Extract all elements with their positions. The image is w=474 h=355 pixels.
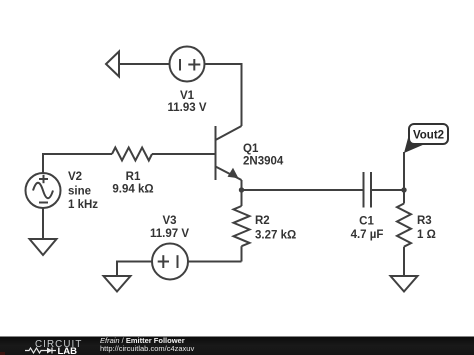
svg-text:V2: V2 [68,171,82,183]
label R2 value [255,215,296,242]
footer title text [100,336,194,353]
resistor R3 [397,190,411,276]
svg-text:LAB: LAB [58,346,78,355]
node emitter [239,187,244,192]
ground (rotated, top-left) [106,52,119,77]
wire [403,152,405,190]
svg-text:11.93 V: 11.93 V [167,102,206,114]
svg-text:V3: V3 [162,215,176,227]
voltage source V1 [170,47,205,82]
logo CircuitLab [25,339,82,355]
node output [401,187,406,192]
wire [43,154,112,173]
label V2 sine 1kHz [68,171,98,211]
svg-text:4.7 µF: 4.7 µF [351,229,384,241]
svg-text:Vout2: Vout2 [413,130,444,142]
label R1 value [112,171,153,196]
ground (R3) [391,276,418,292]
ground (V3) [104,276,131,292]
wire [42,208,44,239]
flag Vout2 [404,124,448,153]
svg-text:Q1: Q1 [243,143,259,155]
ground (V2) [30,239,57,255]
wire [371,189,404,191]
transistor Q1 [216,126,242,190]
voltage source V2 (sine) [26,173,61,208]
svg-text:R1: R1 [126,171,141,183]
label Q1 2N3904 [243,143,284,168]
label V1 value [167,90,206,114]
svg-text:R3: R3 [417,215,432,227]
label R3 value [417,215,436,241]
resistor R1 [112,148,152,161]
svg-text:9.94 kΩ: 9.94 kΩ [112,184,153,196]
svg-text:sine: sine [68,186,91,198]
svg-text:2N3904: 2N3904 [243,156,284,168]
wire [205,64,242,126]
svg-text:3.27 kΩ: 3.27 kΩ [255,230,296,242]
capacitor C1 [364,172,372,208]
wire [152,153,216,155]
svg-text:V1: V1 [180,90,195,102]
label V3 value [150,215,189,240]
svg-text:1 kHz: 1 kHz [68,199,98,211]
footer bar [0,337,474,355]
wire [119,63,170,65]
wire [117,262,152,277]
wire [188,261,242,263]
svg-text:11.97 V: 11.97 V [150,228,189,240]
svg-text:http://circuitlab.com/c4zaxuv: http://circuitlab.com/c4zaxuv [100,344,194,353]
label C1 value [351,216,384,242]
voltage source V3 [152,244,188,280]
svg-text:R2: R2 [255,215,270,227]
resistor R2 [234,190,250,262]
wire [242,189,364,191]
svg-text:1 Ω: 1 Ω [417,229,436,241]
svg-text:C1: C1 [359,216,374,228]
